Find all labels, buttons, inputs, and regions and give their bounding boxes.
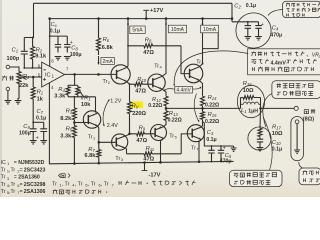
- resistor R17 10: [258, 128, 262, 137]
- load return terminal: [295, 120, 299, 124]
- bubble: power impedance note: [268, 10, 283, 16]
- -17V supply symbol: [144, 162, 146, 170]
- svg-text:R9: R9: [139, 125, 146, 131]
- ground VR2: [15, 101, 22, 104]
- wire Tr7 collector to rail: [199, 139, 201, 161]
- wire R11 to Tr7 base: [181, 134, 192, 154]
- svg-text:10Ω: 10Ω: [243, 88, 254, 94]
- circle supply caps: [236, 13, 271, 48]
- 2mA arrow and box: [98, 56, 100, 64]
- svg-text:0.22Ω: 0.22Ω: [148, 103, 162, 109]
- ground C2: [244, 37, 251, 40]
- 出力 label: [304, 110, 308, 114]
- svg-text:2SC3298: 2SC3298: [24, 182, 46, 188]
- svg-text:, Tr: , Tr: [62, 182, 70, 188]
- svg-text:R4: R4: [58, 87, 65, 93]
- ground load return: [294, 150, 300, 153]
- ground C4: [255, 37, 262, 40]
- resistor R5 3.3k: [72, 123, 76, 164]
- current arrow 10mA left: [165, 21, 167, 26]
- wire pin8 supply: [49, 19, 51, 67]
- resistor R12 0.22: [164, 96, 168, 109]
- input terminal top: [6, 65, 10, 69]
- svg-text:2SA1306: 2SA1306: [24, 189, 46, 195]
- svg-text:+: +: [261, 22, 264, 28]
- wire pin5 from VR2 wiper: [21, 76, 42, 78]
- 5mA box: [130, 26, 145, 34]
- current arrow 10mA right: [202, 21, 204, 26]
- wire Tr4 collector to rail: [162, 19, 166, 77]
- svg-text:3.3k: 3.3k: [60, 133, 72, 139]
- resistor R11 47: [127, 152, 182, 156]
- svg-text:47Ω: 47Ω: [143, 156, 154, 162]
- svg-text:, Tr: , Tr: [88, 182, 96, 188]
- svg-text:,Tr: ,Tr: [9, 182, 15, 188]
- svg-text:Tr: Tr: [1, 167, 6, 173]
- svg-text:4.4mV: 4.4mV: [176, 88, 191, 94]
- svg-text:Tr: Tr: [1, 175, 6, 181]
- svg-text:Tr: Tr: [1, 182, 6, 188]
- svg-text:IC: IC: [45, 72, 51, 78]
- R16 / L1 parallel: [240, 98, 242, 109]
- svg-text:C9: C9: [23, 124, 30, 130]
- svg-text:+17V: +17V: [150, 8, 163, 14]
- svg-text:0.22Ω: 0.22Ω: [205, 119, 219, 125]
- 4.4mV box: [175, 86, 193, 93]
- wire C3/C5 node: [203, 122, 234, 147]
- svg-text:100p: 100p: [7, 56, 20, 62]
- 1.2V 2.4V measure arc: [103, 100, 109, 127]
- svg-text:R12: R12: [152, 97, 161, 103]
- potentiometer VR1 10k: [76, 85, 80, 97]
- wire R3/R5 node to Tr1 base: [74, 122, 87, 124]
- svg-text:10mA: 10mA: [203, 27, 217, 33]
- +17V supply symbol: [143, 9, 149, 11]
- input terminal bottom: [6, 87, 10, 91]
- potentiometer VR2 22k: [17, 71, 21, 99]
- svg-text:0.1μ: 0.1μ: [50, 28, 60, 34]
- transistor Tr3: [112, 134, 128, 150]
- svg-text:10Ω: 10Ω: [272, 131, 283, 137]
- svg-text:C2: C2: [234, 3, 241, 9]
- svg-text:1.2V: 1.2V: [110, 99, 121, 105]
- resistor R14 0.22: [201, 96, 205, 109]
- wire top feed line: [34, 2, 233, 4]
- capacitor C8 100u: [64, 36, 70, 52]
- svg-text:RV: RV: [132, 103, 140, 109]
- 10mA box right: [201, 25, 219, 33]
- wire Tr5 collector to rail: [161, 138, 164, 162]
- wire down to R4/VR1: [74, 74, 76, 85]
- resistor R8 47: [127, 45, 129, 47]
- wire load return: [296, 124, 298, 150]
- wire +17V rail: [50, 18, 232, 20]
- svg-text:, Tr: , Tr: [101, 182, 109, 188]
- svg-text:0.1μ: 0.1μ: [246, 3, 256, 9]
- svg-text:C1: C1: [12, 48, 19, 54]
- circle capacitive comp: [248, 127, 271, 150]
- note heading: [58, 173, 60, 177]
- svg-text:2.4V: 2.4V: [107, 123, 118, 129]
- svg-text:0.1μ: 0.1μ: [272, 147, 282, 153]
- capacitor C7 0.1u: [40, 122, 47, 140]
- svg-text:R5: R5: [66, 126, 73, 132]
- transistor Tr2: [111, 65, 130, 84]
- svg-text:=: =: [14, 175, 17, 181]
- resistor R13 0.22: [164, 108, 168, 123]
- svg-text:1μH: 1μH: [248, 108, 258, 114]
- svg-text:,Tr: ,Tr: [9, 167, 15, 173]
- ground C10: [257, 148, 264, 151]
- svg-text:6.8k: 6.8k: [85, 153, 97, 159]
- wire Tr3 emitter to R11: [125, 148, 128, 154]
- bubble: power 0V here: [299, 162, 303, 169]
- transistor Tr1: [83, 111, 100, 128]
- wire feedback drop to R2/C1: [24, 3, 33, 37]
- capacitor C1 100p: [21, 38, 28, 69]
- ground C8: [64, 57, 71, 60]
- svg-text:C7: C7: [37, 109, 44, 115]
- svg-text:47Ω: 47Ω: [136, 138, 147, 144]
- svg-text:NJM5532D: NJM5532D: [18, 160, 44, 166]
- ground C9: [30, 141, 37, 144]
- svg-text:R14: R14: [208, 95, 217, 101]
- svg-text:1: 1: [7, 162, 9, 166]
- wire pin4 to -17V: [48, 83, 51, 164]
- svg-text:9.1k: 9.1k: [35, 54, 47, 60]
- svg-text:C6: C6: [51, 22, 58, 28]
- svg-text:=: =: [20, 189, 23, 195]
- resistor R2 9.1k: [31, 38, 35, 69]
- svg-text:R3: R3: [66, 109, 73, 115]
- svg-text:,Tr: ,Tr: [9, 189, 15, 195]
- svg-text:0.22Ω: 0.22Ω: [205, 103, 219, 109]
- svg-text:0.22Ω: 0.22Ω: [168, 118, 182, 124]
- oval highlight return point: [291, 117, 304, 161]
- wire R8 to Tr6 base: [181, 46, 190, 74]
- svg-text:0.1μ: 0.1μ: [206, 137, 216, 143]
- transistor Tr5: [151, 125, 167, 141]
- output terminal: [294, 106, 298, 110]
- ellipse inductive comp: [237, 85, 264, 117]
- svg-text:47Ω: 47Ω: [135, 88, 146, 94]
- svg-text:4.4mV: 4.4mV: [271, 60, 287, 66]
- svg-text:2mA: 2mA: [103, 59, 114, 65]
- svg-text:6.8k: 6.8k: [102, 45, 114, 51]
- resistor R15 0.22: [201, 108, 205, 121]
- capacitor C2 0.1u: [245, 22, 251, 37]
- resistor R6 6.8k: [97, 19, 101, 55]
- svg-text:R8: R8: [145, 38, 152, 44]
- ground output caps: [233, 146, 235, 148]
- wire Tr5 emitter to R13: [164, 123, 167, 127]
- resistor R1 1k: [31, 77, 35, 122]
- wire decoupling branch: [50, 35, 68, 37]
- svg-text:C3: C3: [207, 130, 214, 136]
- capacitor C9 100u: [30, 122, 37, 140]
- wire Tr6 collector to rail: [199, 19, 202, 67]
- svg-text:100μ: 100μ: [70, 52, 82, 58]
- ground input: [5, 101, 12, 104]
- wire Tr3 collector: [125, 134, 131, 136]
- wire -17V rail: [50, 161, 234, 163]
- svg-text:Tr: Tr: [1, 189, 6, 195]
- svg-text:R17: R17: [272, 124, 281, 130]
- svg-text:8.2k: 8.2k: [60, 116, 72, 122]
- wire Tr2 collector to +17V: [127, 19, 129, 68]
- svg-text:2SC3423: 2SC3423: [24, 167, 46, 173]
- svg-text:220Ω: 220Ω: [132, 111, 146, 117]
- resistor R9 47: [130, 132, 155, 136]
- transistor Tr7: [187, 125, 204, 142]
- svg-text:R1: R1: [37, 90, 44, 96]
- arrow 4.4mV left: [164, 89, 175, 91]
- current arrow 5mA: [127, 21, 129, 26]
- 入力 label: [2, 76, 7, 81]
- wire Tr3 base: [99, 141, 116, 143]
- svg-text:10mA: 10mA: [171, 27, 185, 33]
- capacitor C3 0.1u: [208, 146, 214, 162]
- wire R4/VR1 bottom node: [68, 96, 96, 98]
- svg-text:R6: R6: [103, 37, 110, 43]
- svg-text:0.1μ: 0.1μ: [36, 115, 46, 121]
- svg-text:C10: C10: [272, 140, 281, 146]
- leader instruction to 4.4mV: [174, 51, 248, 86]
- capacitor C6 0.1u: [55, 36, 61, 52]
- wire Tr1 collector: [95, 97, 97, 113]
- capacitor C4 470u: [255, 22, 261, 37]
- svg-text:, Tr: , Tr: [75, 182, 83, 188]
- resistor R3 8.2k: [72, 108, 76, 123]
- wire dogleg at 10mA box: [203, 33, 219, 49]
- wire pin6: [24, 67, 41, 69]
- wire to C2/C4: [232, 21, 259, 23]
- svg-text:C8: C8: [71, 46, 78, 52]
- svg-text:470μ: 470μ: [270, 32, 282, 38]
- svg-text:47Ω: 47Ω: [143, 50, 154, 56]
- inductor L1 1uH: [241, 102, 261, 104]
- svg-text:C4: C4: [272, 26, 279, 32]
- resistor R4 3.3k: [68, 84, 78, 86]
- svg-text:R13: R13: [169, 111, 178, 117]
- svg-text:5mA: 5mA: [132, 28, 143, 34]
- wire +17V entry drop at right: [231, 3, 233, 22]
- svg-text:R15: R15: [208, 112, 217, 118]
- arrow 4.4mV lower: [194, 94, 199, 122]
- transistor Tr6: [184, 64, 203, 83]
- svg-text:3.3k: 3.3k: [54, 94, 66, 100]
- svg-text:R11: R11: [146, 146, 155, 152]
- wire input gnd: [7, 91, 9, 101]
- wire C7 C9 node: [33, 121, 44, 123]
- wire to R3: [73, 97, 75, 108]
- svg-text:1k: 1k: [37, 97, 44, 103]
- ground C7: [40, 141, 47, 144]
- svg-text:2SA1360: 2SA1360: [18, 175, 40, 181]
- resistor R7 6.8k: [97, 142, 101, 163]
- 10mA box left: [168, 25, 186, 33]
- wire R17 tap: [259, 108, 262, 128]
- wire op-amp output to Tr2 base: [65, 73, 117, 75]
- arrow 4.4mV right: [193, 87, 201, 89]
- svg-text:=: =: [20, 167, 23, 173]
- wire Tr6 emitter to R14: [199, 81, 202, 96]
- svg-text:22k: 22k: [19, 83, 29, 89]
- svg-text:100μ: 100μ: [19, 131, 31, 137]
- svg-text:IC: IC: [1, 160, 6, 166]
- resistor Ry 220 (highlighted): [131, 102, 143, 109]
- ground C6: [55, 57, 62, 60]
- note line2: [53, 189, 58, 194]
- resistor R10 47: [130, 82, 153, 86]
- wire Tr2 emitter node: [127, 81, 130, 101]
- capacitor C5 470u: [218, 146, 224, 161]
- wire Tr7 emitter to R15: [201, 122, 202, 128]
- transistor Tr4: [148, 74, 165, 91]
- bubble: inductive load comp: [264, 118, 273, 171]
- capacitor C10 0.1u: [257, 137, 263, 147]
- bubble: capacitive load comp: [263, 94, 272, 128]
- svg-text:3: 3: [7, 177, 9, 181]
- svg-text:R7: R7: [88, 147, 95, 153]
- svg-text:+: +: [223, 145, 226, 151]
- wire to output terminal: [261, 107, 295, 109]
- svg-text:=: =: [14, 160, 17, 166]
- op-amp IC1 NJM5532D: [42, 62, 65, 87]
- wire Tr1 emitter down: [98, 126, 99, 142]
- instruction box: [248, 49, 320, 75]
- svg-text:7: 7: [112, 183, 114, 188]
- svg-text:R10: R10: [137, 77, 146, 83]
- wire input to VR2: [10, 67, 19, 71]
- svg-text:=: =: [20, 182, 23, 188]
- svg-text:Tr: Tr: [52, 182, 57, 188]
- wire output rail: [166, 107, 241, 109]
- svg-text:10k: 10k: [81, 102, 91, 108]
- svg-text:(8Ω): (8Ω): [303, 116, 314, 122]
- svg-text:-17V: -17V: [149, 173, 161, 179]
- wire Tr4 emitter to R12: [162, 89, 166, 96]
